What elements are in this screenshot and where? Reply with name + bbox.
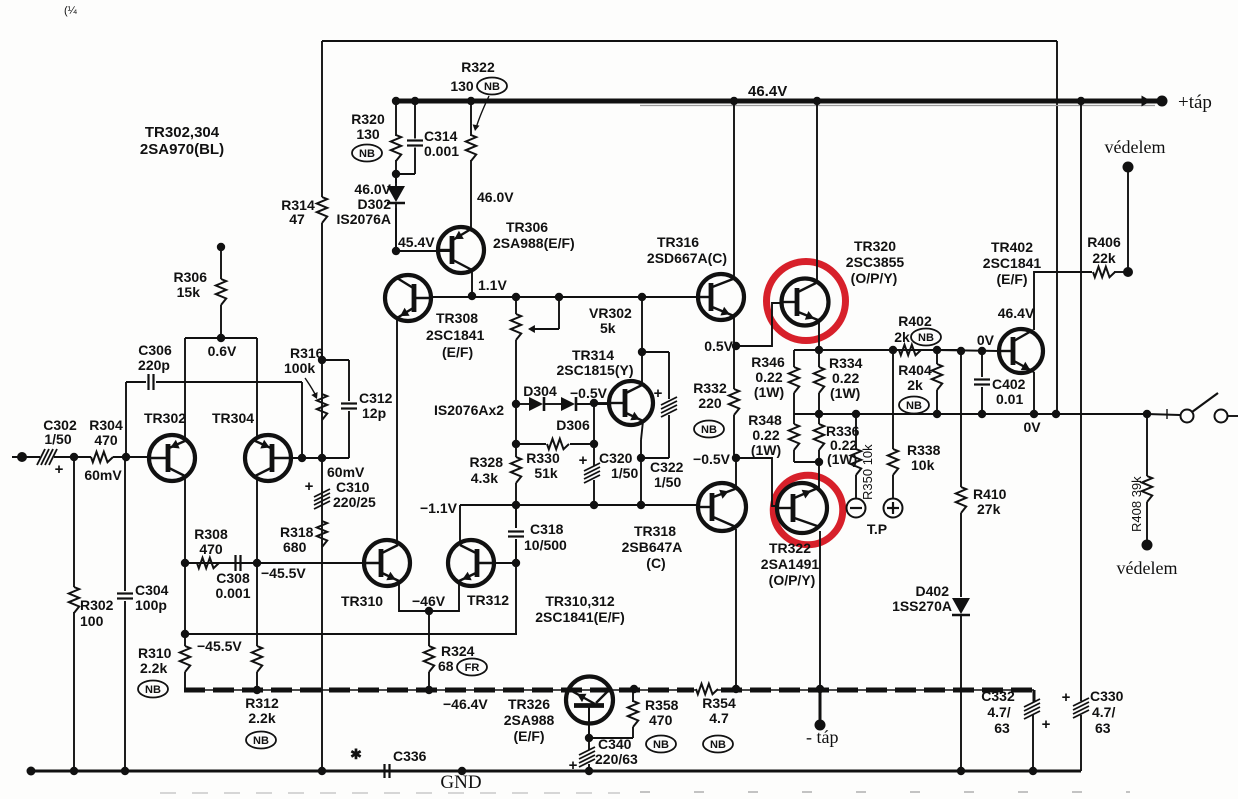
wire vedelem stub (1127, 167, 1129, 272)
capacitor C302 (37, 449, 45, 465)
wire left trunk x=322 (321, 41, 323, 197)
svg-text:D402: D402 (916, 583, 950, 599)
wire 1.1V row (431, 296, 698, 298)
capacitor C320 (584, 463, 600, 471)
node R320-C314 junction (392, 170, 400, 178)
node bus-TR318 (732, 685, 740, 693)
node rail-TR320 (813, 97, 821, 105)
wire TR320 emitter (818, 321, 820, 350)
capacitor C314 (414, 101, 416, 139)
node rail end arrow (1142, 96, 1152, 107)
svg-text:TR306: TR306 (506, 219, 548, 235)
transistor TR304 (245, 435, 291, 481)
resistor R312 (252, 646, 262, 672)
svg-text:27k: 27k (977, 501, 1001, 517)
node +tap terminal (1157, 96, 1168, 107)
node TR402e (1030, 410, 1038, 418)
svg-text:220/63: 220/63 (595, 751, 638, 767)
svg-text:R328: R328 (470, 454, 504, 470)
transistor TR312 (448, 540, 494, 586)
node C402 bottom (978, 410, 986, 418)
transistor TR326 (566, 677, 613, 724)
svg-text:+: + (579, 452, 588, 469)
svg-text:R404: R404 (898, 362, 932, 378)
wire TR312 base link (494, 562, 516, 564)
svg-text:+táp: +táp (1178, 92, 1212, 113)
svg-text:4.7/: 4.7/ (1092, 704, 1115, 720)
red circle TR322 (773, 475, 843, 545)
svg-text:10/500: 10/500 (524, 537, 567, 553)
svg-text:0.001: 0.001 (424, 143, 459, 159)
svg-text:R322: R322 (461, 59, 495, 75)
svg-text:−0.5V: −0.5V (693, 451, 731, 467)
svg-text:2SA1491: 2SA1491 (761, 556, 820, 572)
svg-text:TR326: TR326 (508, 696, 550, 712)
wire R348 column (793, 414, 795, 424)
svg-text:1/50: 1/50 (611, 465, 638, 481)
wire C304 column (124, 457, 126, 591)
wire TR304 base (291, 457, 349, 459)
svg-text:FR: FR (465, 662, 480, 674)
testpoint minus (847, 499, 866, 518)
node TR314 collector node (638, 348, 646, 356)
node R306 bottom (217, 334, 225, 342)
svg-text:1.1V: 1.1V (478, 277, 507, 293)
bottom scan artifacts (160, 792, 620, 794)
capacitor C330 (1073, 698, 1089, 706)
svg-text:46.4V: 46.4V (998, 305, 1035, 321)
red circle TR320 (767, 262, 846, 341)
capacitor C322 (661, 397, 677, 405)
capacitor C306 (126, 381, 146, 383)
svg-text:2.2k: 2.2k (248, 710, 275, 726)
svg-text:+: + (305, 478, 314, 495)
svg-text:46.0V: 46.0V (477, 189, 514, 205)
svg-text:−45.5V: −45.5V (261, 565, 306, 581)
resistor R330 (516, 443, 546, 445)
svg-text:védelem: védelem (1105, 137, 1166, 157)
node VR302 wiper top (555, 293, 563, 301)
wire TR304 collector (256, 338, 258, 437)
node TR306 base-node (392, 247, 400, 255)
resistor R324 (424, 646, 434, 672)
diode D306 (561, 397, 575, 411)
svg-text:0.5V: 0.5V (704, 338, 733, 354)
svg-text:TR314: TR314 (572, 347, 614, 363)
resistor R408 (1142, 476, 1152, 502)
svg-text:130: 130 (450, 78, 474, 94)
svg-text:2SC1841: 2SC1841 (426, 327, 485, 343)
wire TR314 base (594, 402, 609, 404)
wire top border box (322, 40, 1057, 42)
svg-text:(O/P/Y): (O/P/Y) (769, 572, 816, 588)
svg-text:NB: NB (484, 81, 500, 93)
svg-text:0.22: 0.22 (832, 370, 859, 386)
svg-text:R312: R312 (245, 695, 279, 711)
svg-text:2k: 2k (894, 329, 910, 345)
svg-text:NB: NB (906, 400, 922, 412)
svg-text:TR402: TR402 (991, 239, 1033, 255)
svg-text:NB: NB (710, 739, 726, 751)
node -tap terminal (815, 720, 826, 731)
node 0.5V (732, 342, 740, 350)
svg-text:R304: R304 (89, 417, 123, 433)
node C340 bottom (585, 767, 593, 775)
svg-text:130: 130 (356, 126, 380, 142)
node bus-R312 (253, 686, 261, 694)
wire R302 column (73, 457, 75, 587)
node TR320e (815, 346, 823, 354)
svg-text:R320: R320 (351, 111, 385, 127)
resistor R354 (696, 684, 718, 694)
node R404 bottom (933, 410, 941, 418)
resistor R322 wire (470, 101, 472, 136)
resistor R332 (729, 389, 739, 415)
node C320 bottom node (590, 501, 598, 509)
svg-text:470: 470 (199, 541, 223, 557)
svg-text:R402: R402 (898, 313, 932, 329)
svg-text:220/25: 220/25 (333, 494, 376, 510)
svg-text:- táp: - táp (806, 727, 838, 747)
node R402 right (933, 346, 941, 354)
svg-text:C330: C330 (1090, 688, 1124, 704)
node input-R302 (70, 453, 78, 461)
svg-text:2SB647A: 2SB647A (622, 539, 683, 555)
svg-text:védelem: védelem (1117, 558, 1178, 578)
transistor TR308 (385, 275, 431, 321)
svg-text:220: 220 (698, 395, 722, 411)
wire TR318 collector (735, 529, 737, 689)
svg-text:TR304: TR304 (212, 410, 254, 426)
svg-text:1/50: 1/50 (654, 474, 681, 490)
svg-text:TR310,312: TR310,312 (545, 593, 614, 609)
svg-text:C308: C308 (216, 570, 250, 586)
transistor TR322 (777, 483, 827, 533)
wire R316 arrow (305, 378, 316, 396)
svg-text:63: 63 (994, 720, 1010, 736)
svg-text:R346: R346 (751, 354, 785, 370)
wire TR316 collector (733, 101, 735, 276)
svg-text:(C): (C) (646, 555, 665, 571)
svg-text:0.6V: 0.6V (208, 343, 237, 359)
node R406 right (1123, 267, 1133, 277)
capacitor C310 (314, 489, 330, 497)
node R306 top (217, 243, 225, 251)
transistor TR320 (782, 279, 829, 326)
wire -1.1V row (460, 504, 699, 506)
node output-R408 (1143, 410, 1151, 418)
svg-text:C312: C312 (359, 390, 393, 406)
svg-text:D304: D304 (523, 383, 557, 399)
svg-text:47: 47 (289, 211, 305, 227)
wire long vertical x1081 (1080, 101, 1082, 701)
svg-text:(E/F): (E/F) (442, 344, 473, 360)
wire -45.5V row (185, 562, 364, 564)
wire TR322 base elbow (736, 458, 779, 506)
node R330 right (590, 440, 598, 448)
svg-text:C310: C310 (336, 479, 370, 495)
svg-text:0.22: 0.22 (752, 427, 779, 443)
wire -tap stub (819, 690, 822, 723)
wire R306 column (220, 247, 222, 279)
svg-text:D302: D302 (358, 196, 392, 212)
svg-text:+: + (654, 385, 663, 402)
node rail-R322 (467, 97, 475, 105)
svg-text:2SC1815(Y): 2SC1815(Y) (556, 362, 633, 378)
svg-text:−1.1V: −1.1V (420, 500, 458, 516)
svg-text:+: + (1062, 689, 1071, 706)
diode D402 (952, 598, 970, 614)
resistor R406 (1093, 267, 1115, 277)
svg-text:4.7/: 4.7/ (987, 704, 1010, 720)
svg-text:470: 470 (649, 712, 673, 728)
node gnd left end (27, 767, 36, 776)
transistor TR314 (609, 381, 653, 425)
svg-text:TR312: TR312 (467, 592, 509, 608)
svg-text:100p: 100p (135, 597, 167, 613)
node R330 left (512, 440, 520, 448)
wire R408 column (1146, 414, 1148, 476)
svg-text:R332: R332 (693, 380, 727, 396)
svg-text:NB: NB (918, 332, 934, 344)
svg-text:NB: NB (145, 684, 161, 696)
svg-text:C314: C314 (424, 128, 458, 144)
svg-text:15k: 15k (177, 284, 201, 300)
wire R324 column (428, 611, 430, 646)
node bus-R358 (630, 685, 638, 693)
svg-text:5k: 5k (600, 320, 616, 336)
svg-text:+: + (1042, 716, 1051, 733)
wire TR314 collector column (641, 297, 643, 352)
svg-text:R318: R318 (280, 524, 314, 540)
svg-text:2SD667A(C): 2SD667A(C) (647, 250, 727, 266)
svg-text:(E/F): (E/F) (996, 271, 1027, 287)
svg-text:(O/P/Y): (O/P/Y) (851, 270, 898, 286)
svg-text:100k: 100k (284, 360, 315, 376)
svg-text:22k: 22k (1092, 250, 1116, 266)
wire -45.5V lower row (184, 563, 186, 646)
testpoint plus (884, 499, 903, 518)
wire C322 branch (642, 351, 669, 353)
resistor R336 (814, 424, 824, 450)
bus -46.4V dashed (184, 689, 697, 691)
svg-text:(1W): (1W) (754, 384, 784, 400)
svg-text:220p: 220p (138, 357, 170, 373)
svg-text:R324: R324 (441, 643, 475, 659)
node rail-R320 (392, 97, 400, 105)
capacitor C318 (515, 505, 517, 528)
svg-text:R338: R338 (907, 442, 941, 458)
node R336-R348 join (815, 458, 823, 466)
svg-text:R306: R306 (174, 269, 208, 285)
wire TR402 collector (1034, 272, 1092, 330)
node rail-x1081 (1077, 97, 1085, 105)
svg-text:TR322: TR322 (769, 540, 811, 556)
resistor R348 (789, 424, 799, 450)
svg-text:R310: R310 (138, 645, 172, 661)
node R410 top (957, 347, 965, 355)
switch lever (1192, 393, 1218, 412)
node C318 bottom (512, 559, 520, 567)
capacitor C304 (117, 592, 133, 594)
node gnd D402col (957, 767, 965, 775)
capacitor C308 (234, 555, 236, 571)
svg-text:TR310: TR310 (341, 593, 383, 609)
svg-text:R408 39k: R408 39k (1129, 476, 1144, 532)
resistor R306 (216, 279, 226, 305)
svg-text:2SC1841(E/F): 2SC1841(E/F) (535, 609, 624, 625)
wire TR314 base column (593, 403, 595, 444)
wire TR318 emitter stub (735, 458, 737, 486)
wire TR310 emitter elbow (399, 581, 459, 611)
wire VR302 wiper (558, 297, 560, 329)
resistor R346 (789, 367, 799, 393)
svg-text:NB: NB (253, 735, 269, 747)
node D304 left (512, 400, 520, 408)
wire TR304 emitter down (256, 479, 258, 563)
node TR306c (468, 292, 476, 300)
wire R320 column (395, 101, 397, 136)
svg-text:T.P: T.P (867, 521, 887, 537)
resistor R410 (956, 487, 966, 513)
svg-text:2SC3855: 2SC3855 (846, 254, 905, 270)
svg-text:(1W): (1W) (751, 442, 781, 458)
wire TR306 base (396, 250, 452, 252)
svg-text:NB: NB (359, 148, 375, 160)
wire TR314 emitter (641, 421, 643, 440)
svg-text:TR308: TR308 (436, 310, 478, 326)
capacitor C336 (383, 764, 385, 778)
wire TR314 emitter drop (640, 458, 642, 505)
svg-text:4.3k: 4.3k (471, 470, 498, 486)
svg-text:12p: 12p (362, 405, 386, 421)
wire TR320 base elbow (736, 303, 782, 346)
diode D302 (395, 174, 397, 186)
svg-text:TR316: TR316 (657, 234, 699, 250)
resistor R328 (511, 457, 521, 483)
svg-text:GND: GND (440, 772, 481, 793)
svg-text:TR318: TR318 (634, 523, 676, 539)
wire rail shadow (640, 105, 1155, 107)
svg-text:R354: R354 (702, 695, 736, 711)
svg-text:0.01: 0.01 (996, 391, 1023, 407)
wire collector box top (185, 337, 257, 339)
wire bus end to C332 (1033, 690, 1036, 702)
node R328 bottom (512, 501, 520, 509)
node -46V (425, 607, 433, 615)
transistor TR402 (999, 329, 1043, 373)
svg-text:46.4V: 46.4V (748, 83, 787, 100)
transistor TR306 (438, 227, 484, 273)
svg-text:1/50: 1/50 (44, 431, 71, 447)
switch contact left (1181, 410, 1194, 423)
svg-text:63: 63 (1095, 720, 1111, 736)
svg-text:R330: R330 (526, 450, 560, 466)
wire TR320 collector (816, 101, 818, 283)
transistor TR302 (149, 435, 195, 481)
svg-text:TR302: TR302 (144, 410, 186, 426)
svg-text:C306: C306 (138, 342, 172, 358)
switch contact right (1215, 410, 1228, 423)
wire TR402 emitter (1033, 372, 1035, 414)
capacitor C332 (1024, 699, 1040, 707)
wire R334 column (818, 350, 820, 367)
svg-text:2k: 2k (907, 377, 923, 393)
capacitor C340 (588, 738, 590, 750)
wire switch stubs (1147, 414, 1180, 415)
svg-text:NB: NB (701, 424, 717, 436)
capacitor C402 (981, 351, 983, 377)
node C402 top (978, 347, 986, 355)
transistor TR310 (364, 540, 410, 586)
svg-text:TR302,304: TR302,304 (145, 124, 220, 141)
wire D304 row (516, 403, 529, 405)
wire input (12, 456, 40, 458)
node gnd-C336 right (458, 767, 466, 775)
resistor R318 (317, 521, 327, 547)
svg-text:(1W): (1W) (830, 385, 860, 401)
node wire1.1-D column (638, 293, 646, 301)
svg-text:−46V: −46V (412, 593, 446, 609)
node -0.5V (732, 454, 740, 462)
node TR302e-wire (181, 559, 189, 567)
resistor R338 (888, 449, 898, 475)
svg-text:+: + (55, 461, 64, 478)
svg-text:IS2076Ax2: IS2076Ax2 (434, 402, 504, 418)
svg-text:470: 470 (94, 432, 118, 448)
svg-text:60mV: 60mV (84, 467, 122, 483)
resistor R404 (932, 364, 942, 390)
svg-text:0V: 0V (1023, 419, 1041, 435)
node R350 top (852, 410, 860, 418)
svg-text:2SA988(E/F): 2SA988(E/F) (493, 235, 575, 251)
node input terminal (17, 452, 27, 462)
svg-text:R302: R302 (80, 597, 114, 613)
wire TR306 emitter up (470, 160, 472, 229)
node bus-TR322 (816, 685, 824, 693)
label R320 NB (352, 145, 382, 162)
svg-text:C304: C304 (135, 582, 169, 598)
svg-text:45.4V: 45.4V (398, 234, 435, 250)
wire R410 column (960, 351, 962, 487)
resistor R350 (851, 449, 861, 475)
node R304-TR302 base (122, 453, 130, 461)
node vedelem top (1123, 162, 1134, 173)
wire C306 riser (125, 382, 127, 457)
resistor R350 wire (855, 414, 857, 449)
resistor R308 (197, 558, 219, 568)
diode D304 (529, 397, 543, 411)
wire R322 arrow (476, 96, 489, 128)
svg-text:10k: 10k (911, 457, 935, 473)
wire TR302 emitter down (184, 479, 186, 563)
node bus-R324 (425, 686, 433, 694)
resistor R338 wire (892, 350, 894, 449)
node box right-0V (1052, 410, 1060, 418)
svg-text:VR302: VR302 (589, 305, 632, 321)
wire R358 link (589, 737, 633, 739)
node C306-TR304 base (298, 454, 306, 462)
svg-text:46.0V: 46.0V (354, 181, 391, 197)
ground bus bottom (28, 770, 1081, 773)
resistor R404 wire (936, 350, 938, 364)
wire C306 drop (301, 382, 303, 458)
svg-text:4.7: 4.7 (709, 710, 729, 726)
resistor R322 (466, 135, 476, 161)
svg-text:C332: C332 (981, 688, 1015, 704)
resistor R402 (899, 345, 921, 355)
node rail-C314 (411, 97, 419, 105)
